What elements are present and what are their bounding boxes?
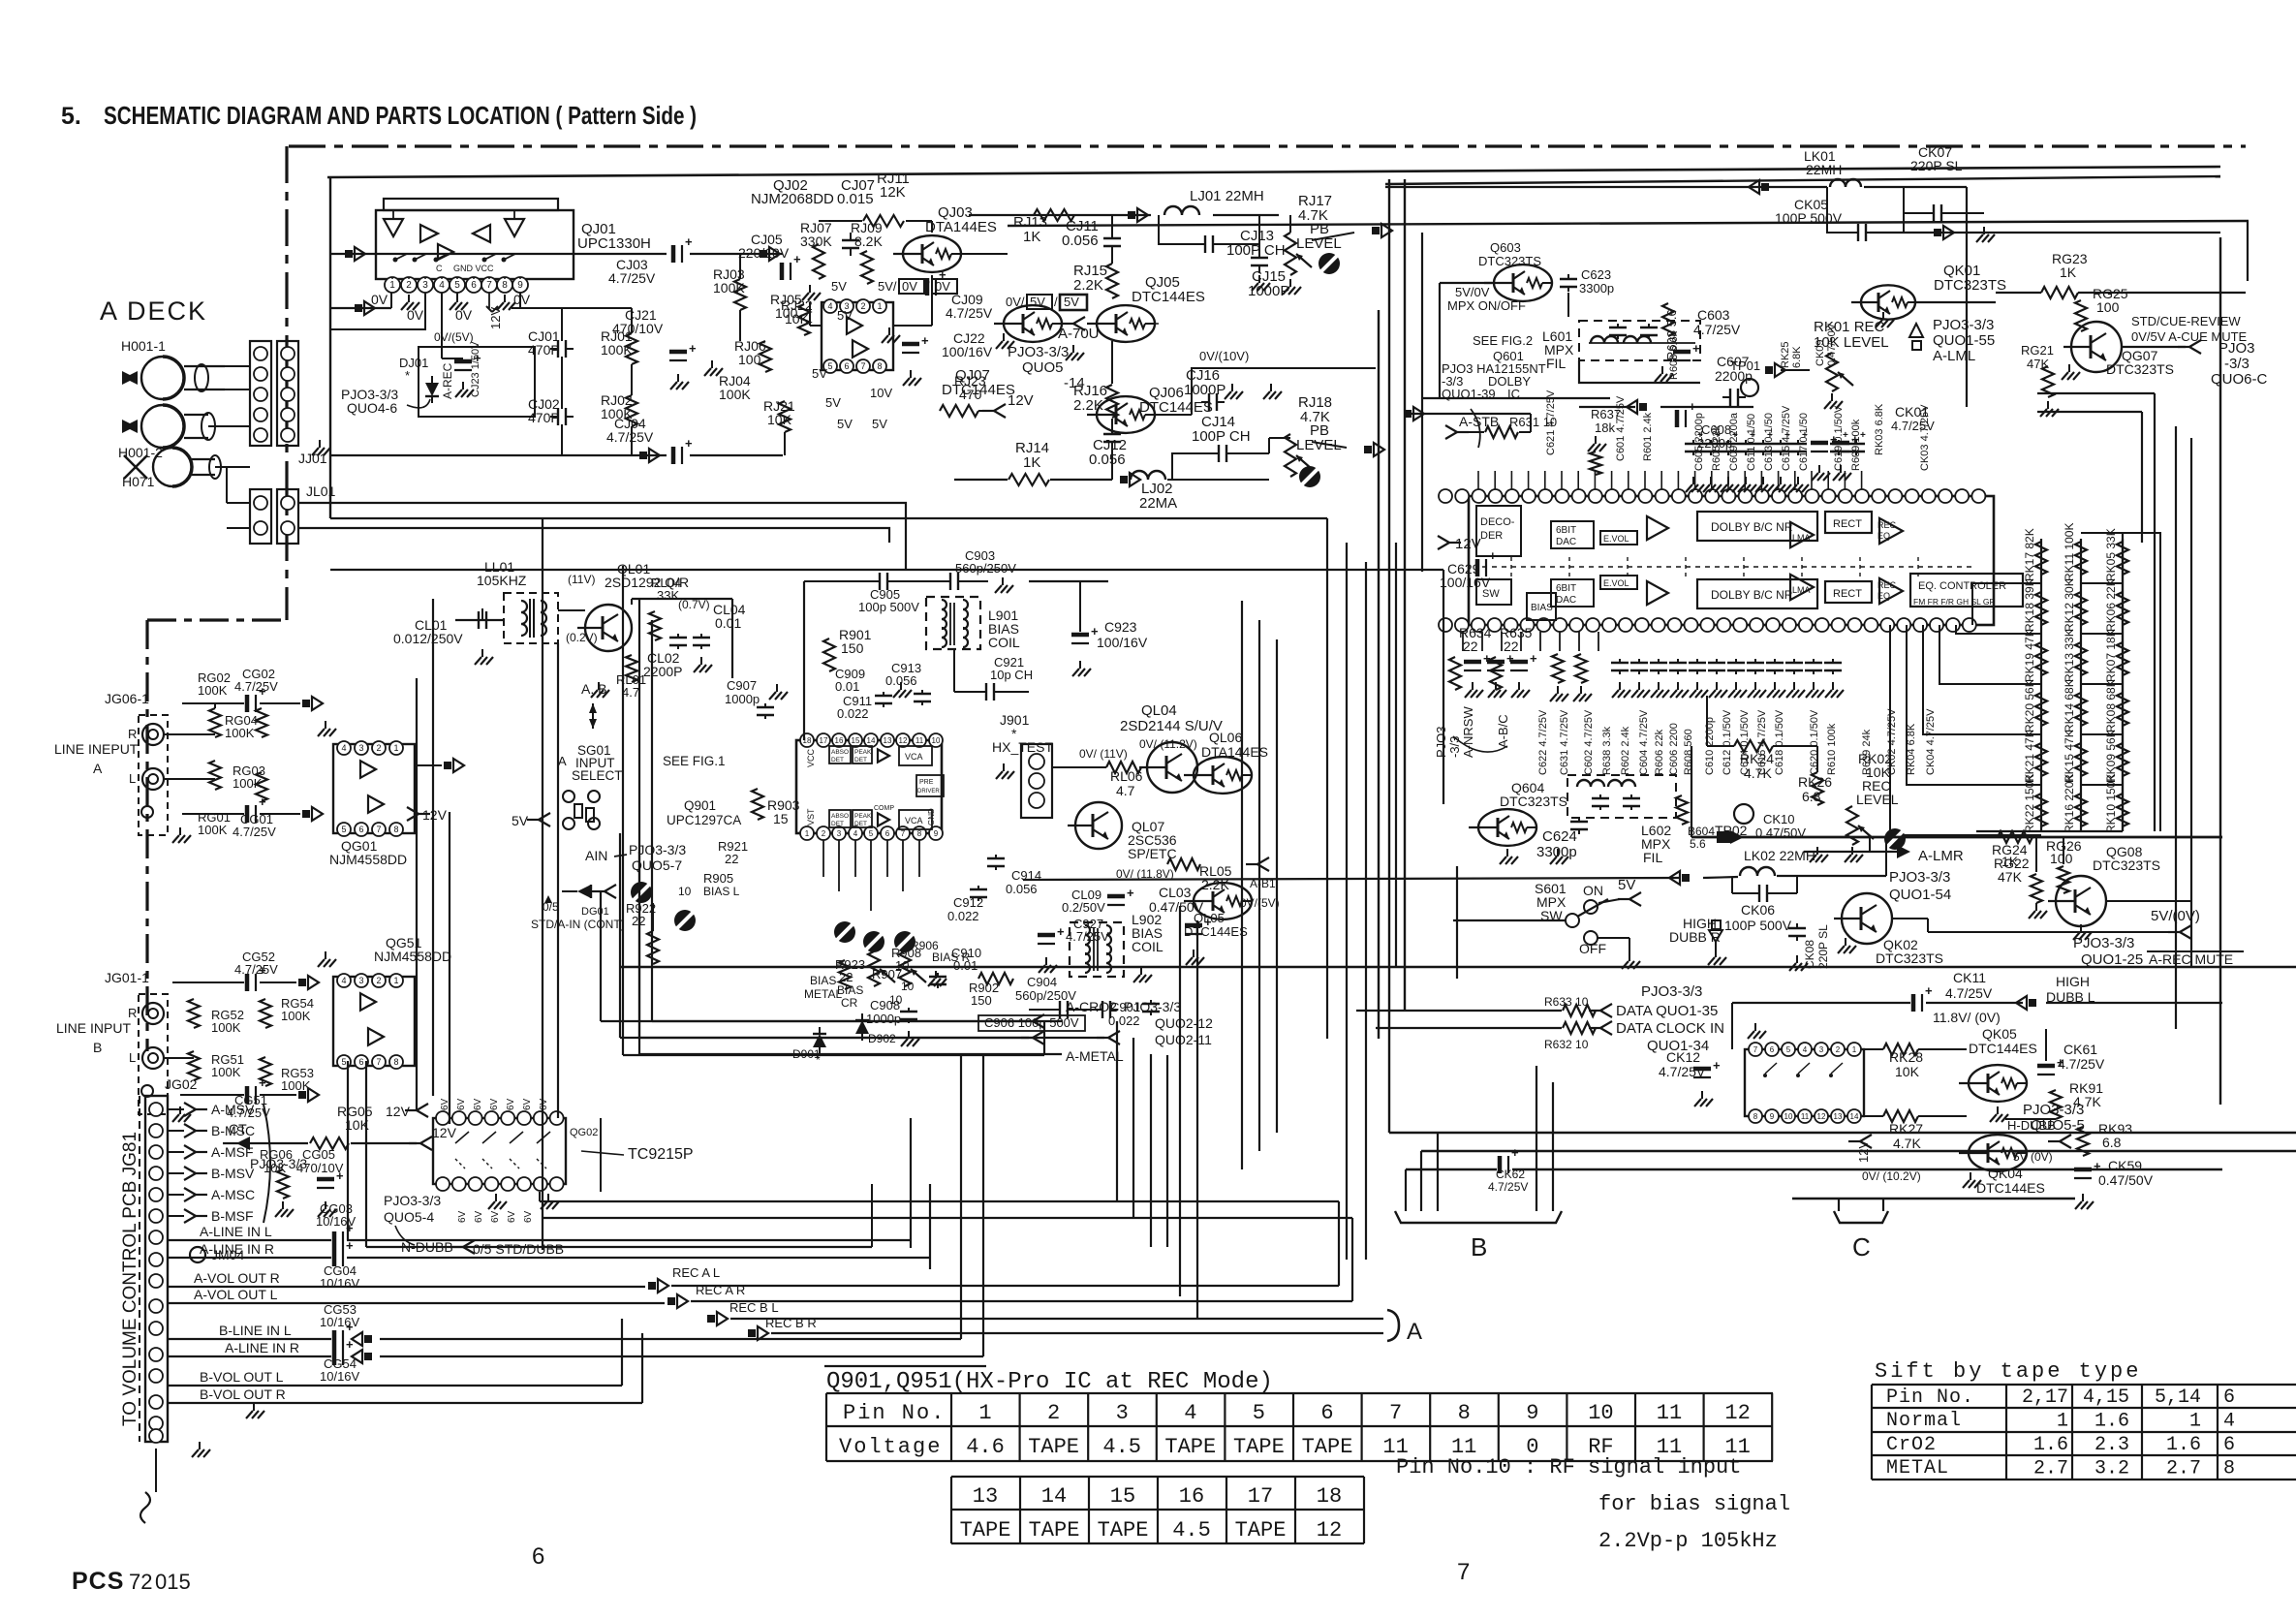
testpoint TP02 CK10 [1715,804,1906,850]
svg-text:PJO3-3/3: PJO3-3/3 [1889,869,1950,886]
svg-text:REC: REC [1877,580,1897,590]
svg-text:MPX ON/OFF: MPX ON/OFF [1447,298,1526,313]
svg-text:14: 14 [867,736,876,745]
block DOLBY B/C NR upper [1697,512,1817,541]
svg-text:0V: 0V [902,279,917,294]
svg-text:1.6: 1.6 [2166,1434,2201,1456]
svg-text:VST: VST [806,808,816,826]
capacitor CG05 470/10V [283,1143,344,1217]
svg-text:+: + [1925,983,1933,998]
svg-text:5V: 5V [812,366,827,381]
svg-text:+: + [1784,430,1790,441]
capacitor C921 10p CH [954,649,1033,701]
svg-text:UPC1297CA: UPC1297CA [667,813,741,827]
svg-text:100: 100 [2050,851,2073,866]
svg-text:A-B1: A-B1 [1250,877,1276,890]
svg-text:10/16V: 10/16V [320,1315,360,1329]
svg-text:4.7/25V: 4.7/25V [1945,985,1993,1001]
wire B bracket assembly [1395,1066,1562,1223]
svg-text:0.47/50V: 0.47/50V [2098,1172,2154,1188]
svg-text:R608 560: R608 560 [1683,729,1694,775]
svg-text:QUO2-11: QUO2-11 [1155,1032,1212,1047]
svg-text:7: 7 [1389,1401,1402,1425]
svg-text:8: 8 [502,280,508,291]
svg-text:STD/A-IN (CONT): STD/A-IN (CONT) [531,918,625,931]
svg-text:2: 2 [376,976,381,985]
svg-text:CK12: CK12 [1666,1049,1700,1065]
svg-text:+: + [1860,430,1866,441]
svg-text:12: 12 [1817,1112,1826,1121]
svg-text:6V: 6V [473,1098,483,1110]
svg-text:12K: 12K [880,184,906,201]
resistor RK26 6.8K [1798,746,1832,805]
block SW [1476,579,1511,605]
boxed voltage 5V/0V/0V [878,279,957,294]
resistor network RG51-RG54 [164,950,319,1120]
svg-text:DTC323TS: DTC323TS [2093,857,2160,873]
svg-text:4.5: 4.5 [1172,1518,1211,1542]
svg-text:RK25: RK25 [1780,341,1791,368]
svg-text:PJO3-3/3: PJO3-3/3 [1124,999,1181,1014]
svg-text:PJO3-3/3: PJO3-3/3 [2073,935,2134,951]
capacitor C905 100p 500V [858,573,919,614]
svg-text:12V: 12V [1455,536,1481,552]
capacitor C910 0.01 [929,946,981,988]
labels 6V rows [440,1098,549,1223]
svg-text:A-LINE IN R: A-LINE IN R [225,1340,299,1355]
wires QJ05-QJ07 [998,300,1159,324]
block EQ CONTROLER [1910,574,2023,607]
svg-text:100/16V: 100/16V [1097,635,1148,650]
label C [1852,1232,1871,1262]
svg-text:A-B/C: A-B/C [1496,714,1510,748]
svg-text:COIL: COIL [1132,939,1164,954]
svg-text:RECT: RECT [1833,588,1862,600]
svg-text:11: 11 [1801,1112,1810,1121]
svg-text:DTC323TS: DTC323TS [1876,950,1943,966]
IC Q601 HA12155NT body [1469,496,1994,625]
svg-text:CK03 4.7/25V: CK03 4.7/25V [1919,404,1931,471]
capacitor CK06 100P 500V [1724,877,1797,933]
label H-DUBB fork [2005,1118,2071,1164]
svg-text:TAPE: TAPE [960,1518,1011,1542]
svg-text:+: + [1692,341,1700,356]
capacitor CJ07 0.015 [837,177,875,256]
svg-text:7: 7 [376,825,381,834]
svg-text:0.056: 0.056 [1062,233,1099,249]
svg-text:(0.2V): (0.2V) [566,631,598,644]
svg-text:REC B R: REC B R [765,1316,817,1330]
page number 7 [1457,1559,1470,1585]
svg-text:DRIVER: DRIVER [917,789,940,794]
svg-text:Pin No.: Pin No. [843,1401,946,1425]
svg-text:+: + [1715,430,1721,441]
resistor RJ02 100K [601,392,637,426]
svg-text:C618 0.1/50V: C618 0.1/50V [1774,709,1785,775]
svg-text:H-DUBB: H-DUBB [2007,1118,2056,1133]
amp LMA upper [1790,522,1814,547]
page number 6 [532,1543,544,1570]
svg-text:Pin No.: Pin No. [1886,1386,1974,1409]
svg-text:10/16V: 10/16V [320,1369,360,1384]
label HIGH DUBB L [2016,974,2095,1010]
svg-text:FIL: FIL [1546,356,1566,371]
svg-text:BIAS L: BIAS L [703,885,740,898]
resistor network RG01-RG04 [164,667,323,839]
svg-text:CK59: CK59 [2108,1158,2142,1173]
table Q901 pins grid [826,1393,1773,1461]
svg-text:Sift by tape type: Sift by tape type [1875,1359,2141,1384]
IC QG02 TC9215P [386,1104,694,1209]
resistor RK28 10K [1864,1044,1967,1079]
svg-text:4.7/25V: 4.7/25V [233,825,276,839]
pot RK02 REC LEVEL [1810,751,1899,862]
svg-text:+: + [1851,432,1859,447]
svg-text:CK10: CK10 [1763,812,1795,826]
svg-text:4: 4 [439,280,445,291]
svg-text:DTC323TS: DTC323TS [1500,794,1567,809]
wire bus grid [287,179,2296,1356]
svg-text:R631 10: R631 10 [1509,415,1557,429]
inductor LJ02 22MA [1120,469,1269,512]
svg-text:C906 100p 500V: C906 100p 500V [984,1015,1079,1030]
capacitor CJ16 1000P [1184,367,1282,411]
svg-text:6: 6 [1320,1401,1333,1425]
opamp QG51 NJM4558DD [318,935,451,1069]
svg-text:0V: 0V [407,307,424,323]
svg-text:1000p: 1000p [725,692,760,706]
svg-text:0.056: 0.056 [1089,452,1126,468]
svg-text:560p/250V: 560p/250V [955,561,1016,576]
resistor R635 22k [1490,625,1533,690]
resistor RJ05 100 [770,292,810,335]
label 12V 0V/(10.2V) [1848,1135,1921,1183]
capacitor CJ14 100P CH [1172,414,1269,480]
svg-text:2200P: 2200P [643,664,682,679]
svg-text:5V/: 5V/ [878,279,897,294]
svg-text:0V/(5V): 0V/(5V) [434,330,474,344]
svg-text:C631 4.7/25V: C631 4.7/25V [1559,709,1570,775]
svg-text:+: + [1489,548,1497,563]
svg-text:6: 6 [2223,1386,2235,1409]
svg-text:2: 2 [406,280,412,291]
transistor QJ05 DTC144ES [1087,274,1205,342]
svg-text:*: * [405,368,410,383]
capacitor CJ22 100/16V [882,327,993,386]
table Sift by tape type [1872,1359,2296,1480]
label A DECK [100,296,207,326]
svg-text:CK06: CK06 [1741,902,1775,918]
svg-text:100K: 100K [719,387,751,402]
svg-text:Q603: Q603 [1490,240,1521,255]
svg-text:LMA: LMA [1792,533,1811,543]
svg-text:A. B: A. B [581,681,606,697]
svg-text:DJ01: DJ01 [399,356,428,370]
labels A-CRO2 A-METAL rows [1066,999,1213,1064]
svg-text:CL03: CL03 [1159,885,1192,900]
wire REC B L [707,1300,1383,1325]
rotated caps above IC left [1545,323,1935,475]
svg-text:PJO3: PJO3 [2218,340,2255,357]
svg-text:5.: 5. [61,103,81,130]
QJ01 pin voltages and grounds [371,292,531,329]
svg-text:5.6: 5.6 [1690,837,1706,851]
transistor QK02 DTC323TS [1834,893,2170,966]
svg-text:5: 5 [1786,1045,1791,1054]
svg-text:6V: 6V [489,1098,500,1110]
svg-text:10/16V: 10/16V [320,1276,360,1291]
capacitor CJ11 0.056 [1062,215,1121,254]
svg-text:C623: C623 [1581,267,1611,282]
svg-text:E.VOL: E.VOL [1603,578,1629,588]
svg-text:SEE FIG.2: SEE FIG.2 [1473,333,1533,348]
svg-text:DTC144ES: DTC144ES [1976,1180,2045,1196]
svg-text:5V: 5V [1618,877,1635,893]
svg-text:B-VOL OUT R: B-VOL OUT R [200,1386,286,1402]
svg-text:+: + [1802,430,1808,441]
capacitor CL02 2200P [643,634,687,679]
svg-text:DET: DET [854,821,867,827]
svg-text:2.2K: 2.2K [1201,877,1229,892]
resistor RJ14 1K [954,440,1112,485]
svg-text:RK14 68K: RK14 68K [2063,679,2076,732]
svg-text:1: 1 [389,280,395,291]
svg-text:LINE INPUT: LINE INPUT [56,1020,131,1036]
svg-text:10V: 10V [870,386,892,400]
resistor RJ07 330K [800,220,832,279]
svg-text:2SD2144 S/U/V: 2SD2144 S/U/V [1120,718,1223,734]
transistor QG07 DTC323TS [2062,322,2201,380]
svg-text:100K: 100K [225,726,255,740]
svg-text:3: 3 [837,829,842,838]
svg-text:12V: 12V [432,1125,457,1140]
resistor RK91 4.7K [2050,1080,2103,1119]
capacitors CG03 CG04 CG53 CG54 [316,1201,372,1384]
svg-text:6V: 6V [506,1098,516,1110]
svg-text:2: 2 [860,301,865,311]
inductor LJ01 22MH [1128,188,1264,222]
svg-text:BIAS: BIAS [810,974,836,987]
svg-text:TC9215P: TC9215P [628,1146,694,1163]
svg-text:5V: 5V [872,417,887,431]
svg-text:METAL: METAL [804,987,842,1001]
svg-text:15: 15 [773,811,789,826]
svg-text:4: 4 [827,301,832,311]
capacitor C608 2200p [1677,399,1732,451]
svg-text:E.VOL: E.VOL [1603,534,1629,544]
svg-text:DAC: DAC [1556,537,1576,547]
svg-text:RK06 22K: RK06 22K [2104,578,2118,632]
capacitor C903 560p/250V [804,548,1016,740]
svg-text:L: L [129,771,136,786]
svg-text:RK13 33K: RK13 33K [2063,629,2076,682]
capacitor C901 0.022 [1108,1000,1160,1028]
svg-text:100K: 100K [713,280,745,296]
svg-text:SCHEMATIC DIAGRAM AND PARTS LO: SCHEMATIC DIAGRAM AND PARTS LOCATION ( P… [104,101,697,130]
potentiometer RJ17 PB LEVEL [1283,193,1392,295]
svg-text:R610 100k: R610 100k [1826,723,1838,775]
svg-text:C613 0.1/50: C613 0.1/50 [1763,413,1775,471]
inductor L601 MPX FIL [1542,321,1753,414]
resistor RJ16 2.2K [1073,341,1118,418]
svg-text:5V: 5V [837,308,853,323]
svg-text:+: + [259,794,266,809]
svg-text:Normal: Normal [1886,1410,1962,1432]
svg-text:0V/ (11.2V): 0V/ (11.2V) [1139,737,1197,751]
wire top bus to LK01 [1008,221,2249,226]
svg-text:DTC144ES: DTC144ES [1132,289,1205,305]
block 6BIT DAC upper [1551,521,1594,548]
block BIAS [1527,593,1556,620]
svg-text:150: 150 [841,640,864,656]
svg-text:QK04: QK04 [1988,1166,2023,1181]
resistor R921 22k [718,839,748,866]
wires QJ02 cluster [330,221,1008,462]
svg-text:PEAK: PEAK [854,813,872,820]
svg-text:1.6: 1.6 [2033,1434,2068,1456]
svg-text:3: 3 [358,976,363,985]
svg-text:0.01: 0.01 [715,615,741,631]
svg-text:13: 13 [1834,1112,1843,1121]
resistor RK27 4.7K [1864,1110,1967,1151]
resistor RJ23 470 [940,373,1034,418]
svg-text:TO VOLUME CONTROL PCB JG81: TO VOLUME CONTROL PCB JG81 [120,1132,140,1426]
inductor LK01 22MH [1385,148,1967,194]
svg-text:R606 22k: R606 22k [1654,729,1665,775]
jack JG01-1 LINE INPUT B [56,970,191,1122]
head H001-2 [118,405,215,460]
svg-text:3.2: 3.2 [2094,1458,2129,1480]
resistor bank RK17-RK22 RK11-RK16 RK05-RK10 [1976,523,2128,834]
svg-text:6: 6 [532,1543,544,1570]
svg-text:22: 22 [725,852,738,866]
svg-text:11: 11 [1657,1401,1682,1425]
resistor R907 10k [872,967,946,1007]
svg-text:1K: 1K [1023,454,1040,471]
svg-text:6V: 6V [507,1210,517,1223]
svg-text:220P SL: 220P SL [1910,158,1963,173]
svg-text:5V: 5V [837,417,853,431]
svg-text:PJO3: PJO3 [1434,726,1448,758]
svg-text:4.7/25V: 4.7/25V [2058,1056,2105,1072]
svg-text:R638 3.3k: R638 3.3k [1601,726,1613,775]
table Q901 Q951 HX-Pro caption [824,1366,1273,1395]
resistor RJ01 100K [601,328,637,364]
svg-text:DET: DET [831,757,844,763]
svg-text:R632 10: R632 10 [1544,1038,1589,1051]
svg-text:C624: C624 [1542,828,1577,845]
svg-text:QL04: QL04 [1141,702,1177,719]
svg-text:CJ23 1/50V: CJ23 1/50V [470,341,481,397]
svg-text:5,14: 5,14 [2155,1386,2201,1409]
svg-text:12: 12 [1317,1518,1342,1542]
svg-text:1: 1 [2057,1411,2068,1433]
svg-text:+: + [685,234,693,249]
svg-text:10: 10 [1588,1401,1613,1425]
svg-text:3: 3 [1116,1401,1129,1425]
brace A [1387,1310,1422,1345]
svg-text:5V/0V: 5V/0V [1455,285,1490,299]
svg-text:A-MSF: A-MSF [211,1144,254,1160]
capacitor C906 100p 500V [978,1015,1085,1031]
svg-text:3300p: 3300p [1579,281,1614,296]
svg-text:for bias signal: for bias signal [1598,1492,1790,1516]
block 6BIT DAC lower [1551,579,1594,607]
svg-text:RK10 150K: RK10 150K [2104,774,2118,833]
svg-text:C622 4.7/25V: C622 4.7/25V [1537,709,1549,775]
svg-text:7: 7 [1457,1559,1470,1585]
transformer L902 BIAS COIL [1070,912,1164,982]
svg-text:B-MSC: B-MSC [211,1123,255,1138]
svg-text:VCA: VCA [905,816,923,826]
svg-text:A-LMR: A-LMR [1918,848,1964,864]
capacitor CJ12 0.056 [1089,419,1127,480]
svg-text:22MH: 22MH [1806,162,1842,177]
transistor QK05 DTC144ES [1959,1026,2037,1122]
svg-text:B-LINE IN L: B-LINE IN L [219,1323,292,1338]
svg-text:5V: 5V [831,279,847,294]
jack JG06-1 LINE INPUT A [54,691,191,843]
resistor R634 22k [1449,625,1492,690]
svg-text:1K: 1K [2060,265,2077,280]
svg-text:7: 7 [901,829,906,838]
svg-text:PJO3-3/3: PJO3-3/3 [250,1156,307,1171]
svg-text:0.012/250V: 0.012/250V [393,631,463,646]
label 0V/(10V) [1155,349,1376,415]
svg-text:JL01: JL01 [306,483,336,499]
connector JL01 [250,483,336,544]
RK01 REC LEVEL pot [1765,312,1894,409]
resistor RJ15 2.2K [1073,252,1118,298]
svg-text:1K: 1K [1023,229,1040,245]
svg-text:13: 13 [973,1484,998,1509]
svg-text:REC B L: REC B L [729,1300,779,1315]
amp REC EQ lower [1877,578,1903,604]
svg-text:TAPE: TAPE [1028,1435,1079,1459]
svg-text:6: 6 [358,825,363,834]
svg-text:DTA144ES: DTA144ES [925,219,997,235]
svg-text:C907: C907 [727,678,757,693]
svg-text:PJO3-3/3: PJO3-3/3 [384,1193,441,1208]
svg-text:FM FR F/R GH SL GP: FM FR F/R GH SL GP [1913,597,1996,607]
svg-text:10: 10 [678,885,692,898]
svg-text:COIL: COIL [988,635,1020,650]
svg-text:100K: 100K [211,1020,241,1035]
svg-text:VCC: VCC [806,748,816,767]
svg-text:0V/: 0V/ [1006,295,1025,309]
svg-text:10: 10 [901,980,915,993]
svg-text:0V/ (11.8V): 0V/ (11.8V) [1116,867,1174,881]
svg-text:100: 100 [2096,299,2120,315]
transistor Q604 DTC323TS [1469,780,1568,864]
wires bank to IC pins [1890,533,2160,835]
svg-text:EQ: EQ [1877,531,1890,541]
svg-text:C611 0.1/50: C611 0.1/50 [1746,414,1757,471]
svg-text:1: 1 [978,1401,991,1425]
svg-text:DTC144ES: DTC144ES [1969,1041,2037,1056]
svg-text:18: 18 [1317,1484,1342,1509]
svg-text:5V/(0V): 5V/(0V) [2151,908,2200,924]
svg-text:5: 5 [454,280,460,291]
svg-text:9: 9 [1526,1401,1538,1425]
svg-text:DATA CLOCK IN: DATA CLOCK IN [1616,1020,1724,1037]
resistor RJ13 1K [1013,209,1074,245]
resistor RG25 100 [2075,286,2128,331]
wire right nested corners [2037,293,2176,1029]
svg-text:4.7/25V: 4.7/25V [234,679,278,694]
svg-text:RK18 39K: RK18 39K [2023,578,2036,632]
svg-text:5V: 5V [1030,295,1045,309]
